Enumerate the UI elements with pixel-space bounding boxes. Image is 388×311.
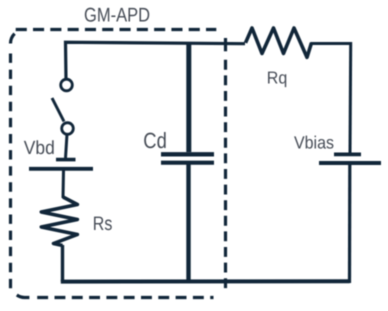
capacitor Cd top stem <box>186 42 191 152</box>
battery Vbd short plate <box>56 158 76 162</box>
battery Vbias short plate <box>334 152 361 156</box>
battery Vbias long plate <box>319 161 381 165</box>
wire Rq to right corner <box>311 42 351 45</box>
wire right vertical to Vbias <box>349 42 353 153</box>
capacitor Cd bottom plate <box>161 161 214 165</box>
GM-APD dashed boundary <box>10 30 225 298</box>
svg-text:Vbias: Vbias <box>294 132 334 152</box>
switch S1 lower contact <box>62 123 74 135</box>
svg-text:GM-APD: GM-APD <box>84 4 150 26</box>
wire battery to resistor <box>62 170 66 198</box>
bottom wire <box>61 279 350 283</box>
svg-text:Rs: Rs <box>93 213 113 235</box>
wire Vbias to bottom <box>348 165 351 284</box>
wire resistor to bottom <box>61 245 64 282</box>
svg-text:Cd: Cd <box>143 128 167 153</box>
switch S1 lever <box>52 98 64 122</box>
battery Vbd long plate <box>29 167 93 171</box>
switch S1 upper contact <box>61 79 73 91</box>
capacitor Cd top plate <box>161 152 214 156</box>
resistor Rq <box>246 28 312 57</box>
wire top <box>66 42 246 80</box>
wire switch to battery <box>66 134 68 158</box>
capacitor Cd bottom stem <box>186 164 190 281</box>
svg-text:Vbd: Vbd <box>24 138 55 159</box>
svg-text:Rq: Rq <box>267 67 288 87</box>
resistor Rs <box>41 197 77 246</box>
